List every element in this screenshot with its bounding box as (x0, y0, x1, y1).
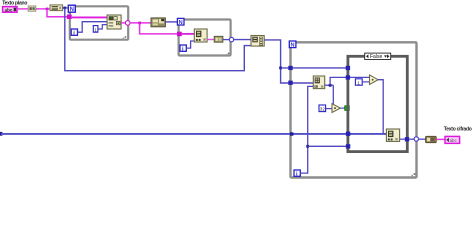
wire loop2 out to Rotate Array (234, 39, 251, 41)
tunnel loop1 string in (67, 15, 72, 20)
conversion bullet (loop2) (214, 36, 223, 42)
for-loop 3 resize glyph (411, 173, 415, 176)
wire long down from length junction (65, 8, 251, 71)
case selector label False (365, 53, 391, 60)
wire string inside loop2 (182, 33, 194, 35)
svg-text:N: N (70, 7, 74, 13)
function Type Cast (loop2) (194, 29, 207, 42)
function Replace/Build (case) (386, 129, 399, 141)
wire to indicator (436, 138, 444, 140)
wire rotate out / down into loop3 (264, 40, 313, 83)
wire cast to conversion (207, 39, 214, 41)
wire down to comparison (332, 85, 334, 105)
wire string inside loop1 (72, 16, 107, 18)
iteration terminal i2 (180, 45, 186, 52)
tunnel loop3 in B (288, 81, 292, 85)
case tunnel out (405, 137, 409, 141)
wire comparison to selector (340, 107, 345, 109)
junction string branch (46, 8, 49, 11)
case tunnel D (unused) (346, 144, 350, 148)
wire icon1 to junction to icon2 (36, 8, 50, 10)
junction length wire (64, 7, 67, 10)
wire out of replace (400, 138, 405, 140)
wire branch down (47, 9, 68, 17)
function Array Size (151, 18, 165, 27)
junction i3 wire (306, 145, 309, 148)
wire string terminal to StrToByte icon (18, 8, 28, 10)
wire i2 to type cast (186, 41, 194, 48)
svg-text:Texto cifrado: Texto cifrado (444, 126, 472, 132)
numeric constant 1 (case) (355, 79, 362, 87)
icon String Length (50, 5, 63, 11)
case tunnel key (346, 132, 350, 136)
svg-text:N: N (179, 20, 183, 26)
wire constant1 to String Subset length (98, 25, 107, 29)
count terminal N3 (289, 41, 296, 48)
wire to loop tunnel (409, 138, 414, 140)
add triangle (370, 75, 379, 85)
case tunnel B (346, 75, 350, 79)
conversion Byte Array To String (426, 136, 437, 142)
svg-text:False: False (370, 54, 382, 60)
numeric constant 32 (319, 105, 326, 112)
tunnel loop1 out (circle) (121, 22, 125, 24)
for-loop 2 border (179, 20, 231, 56)
tunnel loop3 in A (288, 66, 292, 70)
for-loop 2 resize glyph (226, 53, 230, 56)
junction index out (329, 84, 332, 87)
function Index Array (313, 76, 324, 89)
comparison triangle Equal (332, 104, 340, 113)
svg-text:Texto plano: Texto plano (2, 1, 27, 7)
wire loop3 out to conversion (419, 138, 426, 140)
wire branch to case tunnel A (281, 67, 347, 69)
case tunnel A (unused) (346, 66, 350, 70)
wire const to add (362, 81, 369, 83)
for-loop 1 border (70, 6, 128, 39)
tunnel loop2 out (circle) (223, 39, 229, 41)
wire length to N1 (63, 7, 68, 9)
wire Array Size to N2 (165, 21, 178, 23)
svg-text:abc: abc (5, 7, 13, 12)
wire i3 branch to case tunnel D (308, 145, 347, 147)
case structure border (348, 56, 407, 151)
svg-text:1: 1 (357, 80, 360, 86)
tunnel loop3 out (circle) (414, 137, 418, 141)
wire i3 up to index input (300, 86, 313, 173)
junction after loop1 (138, 22, 141, 25)
string control terminal Texto plano (3, 7, 17, 13)
wire case tunnel B to increment (350, 76, 369, 78)
tunnel loop3 key (290, 132, 293, 135)
iteration terminal i1 (71, 29, 77, 36)
svg-text:32: 32 (320, 107, 326, 112)
junction byte array (279, 67, 282, 70)
key control terminal stub (0, 132, 2, 136)
svg-text:1: 1 (94, 27, 97, 33)
wire add down to replace (378, 80, 386, 134)
count terminal N1 (68, 5, 75, 13)
wire i1 to String Subset index (78, 22, 108, 33)
wire branch down to loop2 tunnel (140, 23, 178, 34)
tunnel loop2 string in (177, 32, 182, 37)
count terminal N2 (177, 18, 184, 25)
icon String-to-ByteArray (28, 6, 36, 11)
string indicator terminal Texto cifrado (445, 136, 460, 143)
for-loop 3 border (291, 42, 417, 177)
svg-text:abc: abc (450, 138, 458, 143)
selector tunnel (green) (345, 106, 350, 111)
iteration terminal i3 (294, 170, 300, 177)
function Rotate 1D Array (251, 36, 264, 47)
numeric constant 1 (loop1) (93, 26, 98, 34)
wire key long (1, 133, 386, 135)
wire 32 to comparison (326, 108, 332, 110)
wire index array out (325, 84, 334, 86)
svg-text:N: N (291, 42, 295, 48)
wire loop1 out to Array Size (130, 22, 151, 24)
wire up to case tunnel B (330, 77, 346, 85)
function String Subset (107, 15, 121, 29)
for-loop 1 resize glyph (123, 36, 127, 39)
